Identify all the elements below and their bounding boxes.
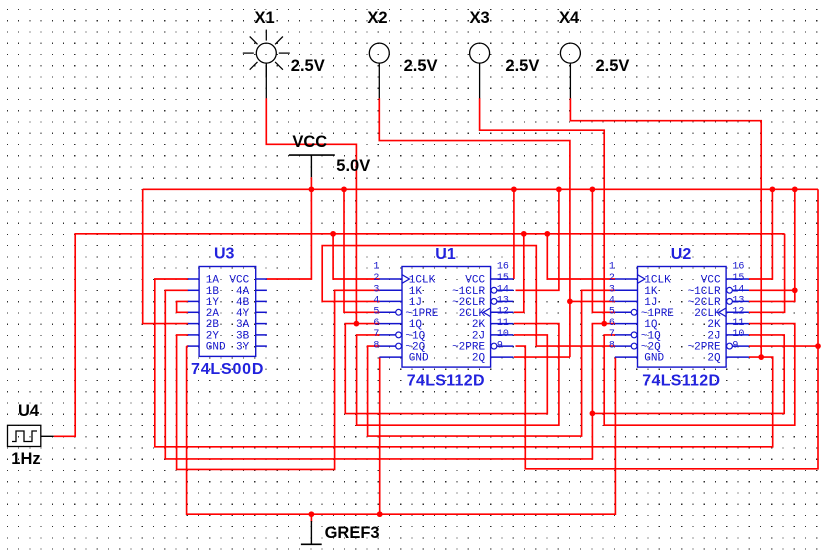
U1 left pin 8 GND stub [379, 356, 402, 358]
svg-text:U1: U1 [435, 246, 456, 263]
wire CLK to U1 1CLK [333, 234, 380, 279]
junction dot X1 at U1 1Q [354, 321, 360, 327]
svg-text:1: 1 [373, 262, 379, 273]
U2 right pin 12 2K stub [726, 323, 749, 325]
U2 right pin 10 ~2PRE stub [726, 343, 749, 349]
U1 right pin 9 2Q stub [491, 356, 514, 358]
wire CLK to U1 2CLK [514, 234, 524, 312]
U1 left pin 6 ~1Q stub [379, 332, 402, 338]
U3 right pin 3A stub [256, 323, 267, 325]
U1 pin numbers [373, 262, 509, 352]
junction dot VCC rail x559 [556, 186, 562, 192]
svg-text:2K: 2K [707, 319, 721, 331]
U2 left pin 3 1J stub [615, 300, 638, 302]
svg-text:8: 8 [609, 340, 615, 351]
svg-text:11: 11 [732, 318, 744, 329]
svg-text:GND: GND [644, 353, 664, 365]
svg-text:8: 8 [373, 340, 379, 351]
svg-text:U4: U4 [18, 402, 40, 420]
U1 right pin 16 VCC stub [491, 278, 514, 280]
svg-text:2: 2 [373, 273, 379, 284]
power symbol VCC [289, 155, 335, 177]
svg-text:1CLK: 1CLK [644, 275, 671, 287]
svg-text:2Q: 2Q [707, 353, 721, 365]
svg-text:6: 6 [609, 318, 615, 329]
wire X2 lamp down [379, 98, 570, 357]
junction dot X4 at U2 2Q [758, 354, 764, 360]
U2 pin numbers [609, 262, 745, 352]
svg-text:13: 13 [732, 296, 744, 307]
svg-text:2Y: 2Y [206, 331, 220, 343]
wire net U3 2Y to U1 1K [177, 290, 380, 469]
junction dot U2 1Q branch [590, 411, 596, 417]
svg-text:3: 3 [373, 285, 379, 296]
svg-text:12: 12 [732, 307, 744, 318]
U1 right pin 10 ~2PRE stub [491, 343, 514, 349]
svg-text:2CLK: 2CLK [459, 308, 486, 320]
svg-text:4: 4 [609, 296, 615, 307]
junction dot VCC rail / VCC symbol [309, 186, 315, 192]
svg-text:1A: 1A [206, 275, 220, 287]
svg-text:2CLK: 2CLK [694, 308, 721, 320]
svg-text:2.5V: 2.5V [404, 57, 438, 75]
svg-text:9: 9 [497, 340, 503, 351]
U3 left pin 1Y stub [188, 300, 199, 302]
svg-text:74LS112D: 74LS112D [642, 373, 720, 390]
U1 right pin 12 2K stub [491, 323, 514, 325]
U1 left pin 5 1Q stub [379, 323, 402, 325]
svg-text:2.5V: 2.5V [596, 57, 630, 75]
U3 right pin 4A stub [256, 289, 267, 291]
U1 left pin 7 ~2Q stub [379, 343, 402, 349]
svg-text:3B: 3B [236, 331, 250, 343]
wire net U2 2Q to U3 1A and X4 [155, 279, 773, 447]
svg-text:VCC: VCC [465, 275, 485, 287]
svg-text:7: 7 [373, 329, 379, 340]
U2 right pin 14 ~2CLR stub [726, 299, 749, 305]
U2 left pin 2 1K stub [615, 289, 638, 291]
wire VCC rail to U3 VCC pin [266, 189, 311, 279]
svg-text:11: 11 [497, 318, 509, 329]
svg-text:GREF3: GREF3 [325, 524, 380, 542]
svg-text:3A: 3A [236, 319, 250, 331]
U1 left pin 3 1J stub [379, 300, 402, 302]
svg-text:13: 13 [497, 296, 509, 307]
wire X3 lamp down [480, 98, 605, 323]
svg-text:5: 5 [373, 307, 379, 318]
svg-text:6: 6 [373, 318, 379, 329]
wire VCC rail to U1 ~1PRE [344, 189, 380, 312]
svg-text:2.5V: 2.5V [505, 57, 539, 75]
U1 right pin 11 2J stub [491, 334, 514, 336]
U2 right pin 9 2Q stub [726, 356, 749, 358]
junction dot VCC rail x772 [770, 186, 776, 192]
svg-text:1: 1 [609, 262, 615, 273]
svg-text:2Q: 2Q [472, 353, 486, 365]
svg-text:VCC: VCC [292, 133, 327, 151]
IC U3 74LS00D body [199, 267, 256, 357]
U2 left pin 7 ~2Q stub [615, 343, 638, 349]
svg-text:GND: GND [206, 342, 226, 354]
svg-text:74LS00D: 74LS00D [191, 361, 264, 378]
wire net X2 to U2 1J [570, 300, 615, 302]
wire VCC symbol stem to rail [310, 177, 312, 189]
U2 left pin 5 1Q stub [615, 323, 638, 325]
IC U1 74LS112D body [402, 267, 491, 368]
svg-text:X3: X3 [470, 9, 490, 27]
svg-text:74LS112D: 74LS112D [407, 373, 485, 390]
indicator lamp X3 [470, 43, 490, 99]
junction dot VCC rail x795 [792, 186, 798, 192]
wire net U2 ~2Q to U1 1J [322, 246, 615, 347]
svg-text:~1PRE: ~1PRE [405, 308, 438, 320]
svg-text:2: 2 [609, 273, 615, 284]
U3 left pin GND stub [188, 345, 199, 347]
svg-text:VCC: VCC [701, 275, 721, 287]
svg-text:~1Q: ~1Q [405, 331, 425, 343]
U3 right pin VCC stub [256, 278, 267, 280]
wire net GND rail [187, 346, 616, 514]
U2 left pin 8 GND stub [615, 356, 638, 358]
ground symbol GREF3 [301, 514, 322, 544]
wire net U2 ~1Q to U2 2K [604, 324, 795, 426]
junction dot X3 at U2 1Q [601, 321, 607, 327]
wire net U1 ~2Q to U2 1K [368, 290, 616, 436]
wire net U1 1Q to U1 2J [345, 324, 547, 414]
U1 pin names [405, 275, 485, 365]
junction dot at U2 ~2PRE [815, 343, 821, 349]
IC U2 74LS112D body [638, 267, 727, 368]
U2 left pin 6 ~1Q stub [615, 332, 638, 338]
svg-text:~1Q: ~1Q [641, 331, 661, 343]
indicator lamp X4 [560, 43, 580, 99]
svg-text:12: 12 [497, 307, 509, 318]
U1 right pin 13 2CLK stub [483, 308, 513, 317]
wire X4 lamp down [570, 98, 761, 357]
U2 left pin 4 ~1PRE stub [615, 309, 638, 315]
svg-text:1Q: 1Q [644, 319, 658, 331]
svg-text:GND: GND [409, 353, 429, 365]
junction dot VCC rail x344 [341, 186, 347, 192]
wire VCC rail to U2 ~1CLR and ~2CLR [749, 189, 795, 301]
U1 left pin 4 ~1PRE stub [379, 309, 402, 315]
svg-text:16: 16 [497, 262, 509, 273]
U3 right pin 3B stub [256, 334, 267, 336]
svg-text:3Y: 3Y [236, 342, 250, 354]
svg-text:U2: U2 [671, 246, 692, 263]
svg-text:16: 16 [732, 262, 744, 273]
U1 right pin 15 ~1CLR stub [491, 287, 514, 293]
U1 right pin 14 ~2CLR stub [491, 299, 514, 305]
wire U2 1Q to U2 2J [592, 335, 784, 414]
junction dot VCC rail x592 [590, 186, 596, 192]
indicator lamp X2 [369, 43, 389, 99]
wire VCC rail to U2 ~1PRE [592, 189, 615, 312]
svg-text:3: 3 [609, 285, 615, 296]
svg-text:7: 7 [609, 329, 615, 340]
junction dot CLK x547 [544, 231, 550, 237]
wire net U1 ~1Q to U1 2K [357, 324, 559, 426]
U3 left pin 1A stub [188, 278, 199, 280]
svg-text:2.5V: 2.5V [291, 57, 325, 75]
U2 left pin 1 1CLK stub [615, 275, 645, 284]
U2 pin names [641, 275, 721, 365]
svg-text:~1PRE: ~1PRE [641, 308, 674, 320]
wire VCC rail to U1 ~1CLR [516, 189, 559, 290]
svg-text:2A: 2A [206, 308, 220, 320]
wire CLK right end to U2 2CLK [749, 234, 785, 312]
U2 right pin 15 ~1CLR stub [726, 287, 749, 293]
wire U3 1Y to 2A loop [177, 301, 189, 312]
svg-text:X4: X4 [559, 9, 580, 27]
wire net U2 1Q trunk [165, 290, 615, 459]
svg-text:2K: 2K [472, 319, 486, 331]
wire U2 ~2PRE tie down to U1 ~2PRE row [516, 346, 819, 469]
junction dot VCC rail x514 [511, 186, 517, 192]
U2 right pin 13 2CLK stub [719, 308, 749, 317]
U1 left pin 2 1K stub [379, 289, 402, 291]
U1 left pin 1 1CLK stub [379, 275, 409, 284]
svg-text:14: 14 [732, 285, 744, 296]
U3 left pin 1B stub [188, 289, 199, 291]
svg-text:4Y: 4Y [236, 308, 250, 320]
wire U3 GND stub red part [187, 345, 189, 347]
junction dot GND at U1 GND [377, 511, 383, 517]
U3 right pin 3Y stub [256, 345, 267, 347]
svg-text:X1: X1 [255, 9, 275, 27]
svg-text:2B: 2B [206, 319, 220, 331]
U3 pin names [206, 275, 250, 354]
junction dot X2 net at U2 1J [567, 299, 573, 305]
svg-text:1Q: 1Q [409, 319, 423, 331]
wire VCC rail left end down to U3 2B [143, 189, 189, 323]
junction dot CLK x524 [521, 231, 527, 237]
indicator lamp X1 [243, 30, 290, 99]
svg-text:2J: 2J [472, 331, 485, 343]
svg-text:VCC: VCC [229, 275, 249, 287]
wire X1 lamp to U1 1Q net [266, 98, 356, 323]
svg-text:1Hz: 1Hz [11, 450, 40, 468]
wire VCC rail to U1 VCC pin [513, 189, 515, 279]
U3 left pin 2Y stub [188, 334, 199, 336]
svg-text:10: 10 [732, 329, 744, 340]
U2 right pin 16 VCC stub [726, 278, 749, 280]
junction dot GND at GREF3 [309, 511, 315, 517]
svg-text:X2: X2 [367, 9, 387, 27]
U3 right pin 4B stub [256, 300, 267, 302]
svg-text:10: 10 [497, 329, 509, 340]
svg-text:15: 15 [497, 273, 509, 284]
svg-text:5.0V: 5.0V [336, 157, 370, 175]
U2 right pin 11 2J stub [726, 334, 749, 336]
wire net U1 2Q to X2 [514, 356, 570, 358]
wire net VCC horizontal rail [143, 188, 818, 190]
wire CLK to U2 1CLK [547, 234, 615, 279]
wire U1 GND down to ground rail [379, 357, 381, 514]
U3 left pin 2B stub [188, 323, 199, 325]
svg-text:5: 5 [609, 307, 615, 318]
svg-text:9: 9 [732, 340, 738, 351]
svg-text:1CLK: 1CLK [409, 275, 436, 287]
svg-text:4: 4 [373, 296, 379, 307]
junction dot CLK x333 [330, 231, 336, 237]
wire VCC rail to U2 VCC pin [749, 189, 773, 279]
svg-text:14: 14 [497, 285, 509, 296]
svg-text:2J: 2J [707, 331, 720, 343]
svg-text:15: 15 [732, 273, 744, 284]
wire net CLK U4 output rail [54, 234, 785, 436]
U3 right pin 4Y stub [256, 311, 267, 313]
clock source U4 [8, 425, 54, 446]
junction dot at U2 ~1CLR [792, 287, 798, 293]
U3 left pin 2A stub [188, 311, 199, 313]
svg-text:U3: U3 [214, 245, 235, 262]
wire VCC rail right end down to U2 ~2PRE [749, 189, 818, 346]
